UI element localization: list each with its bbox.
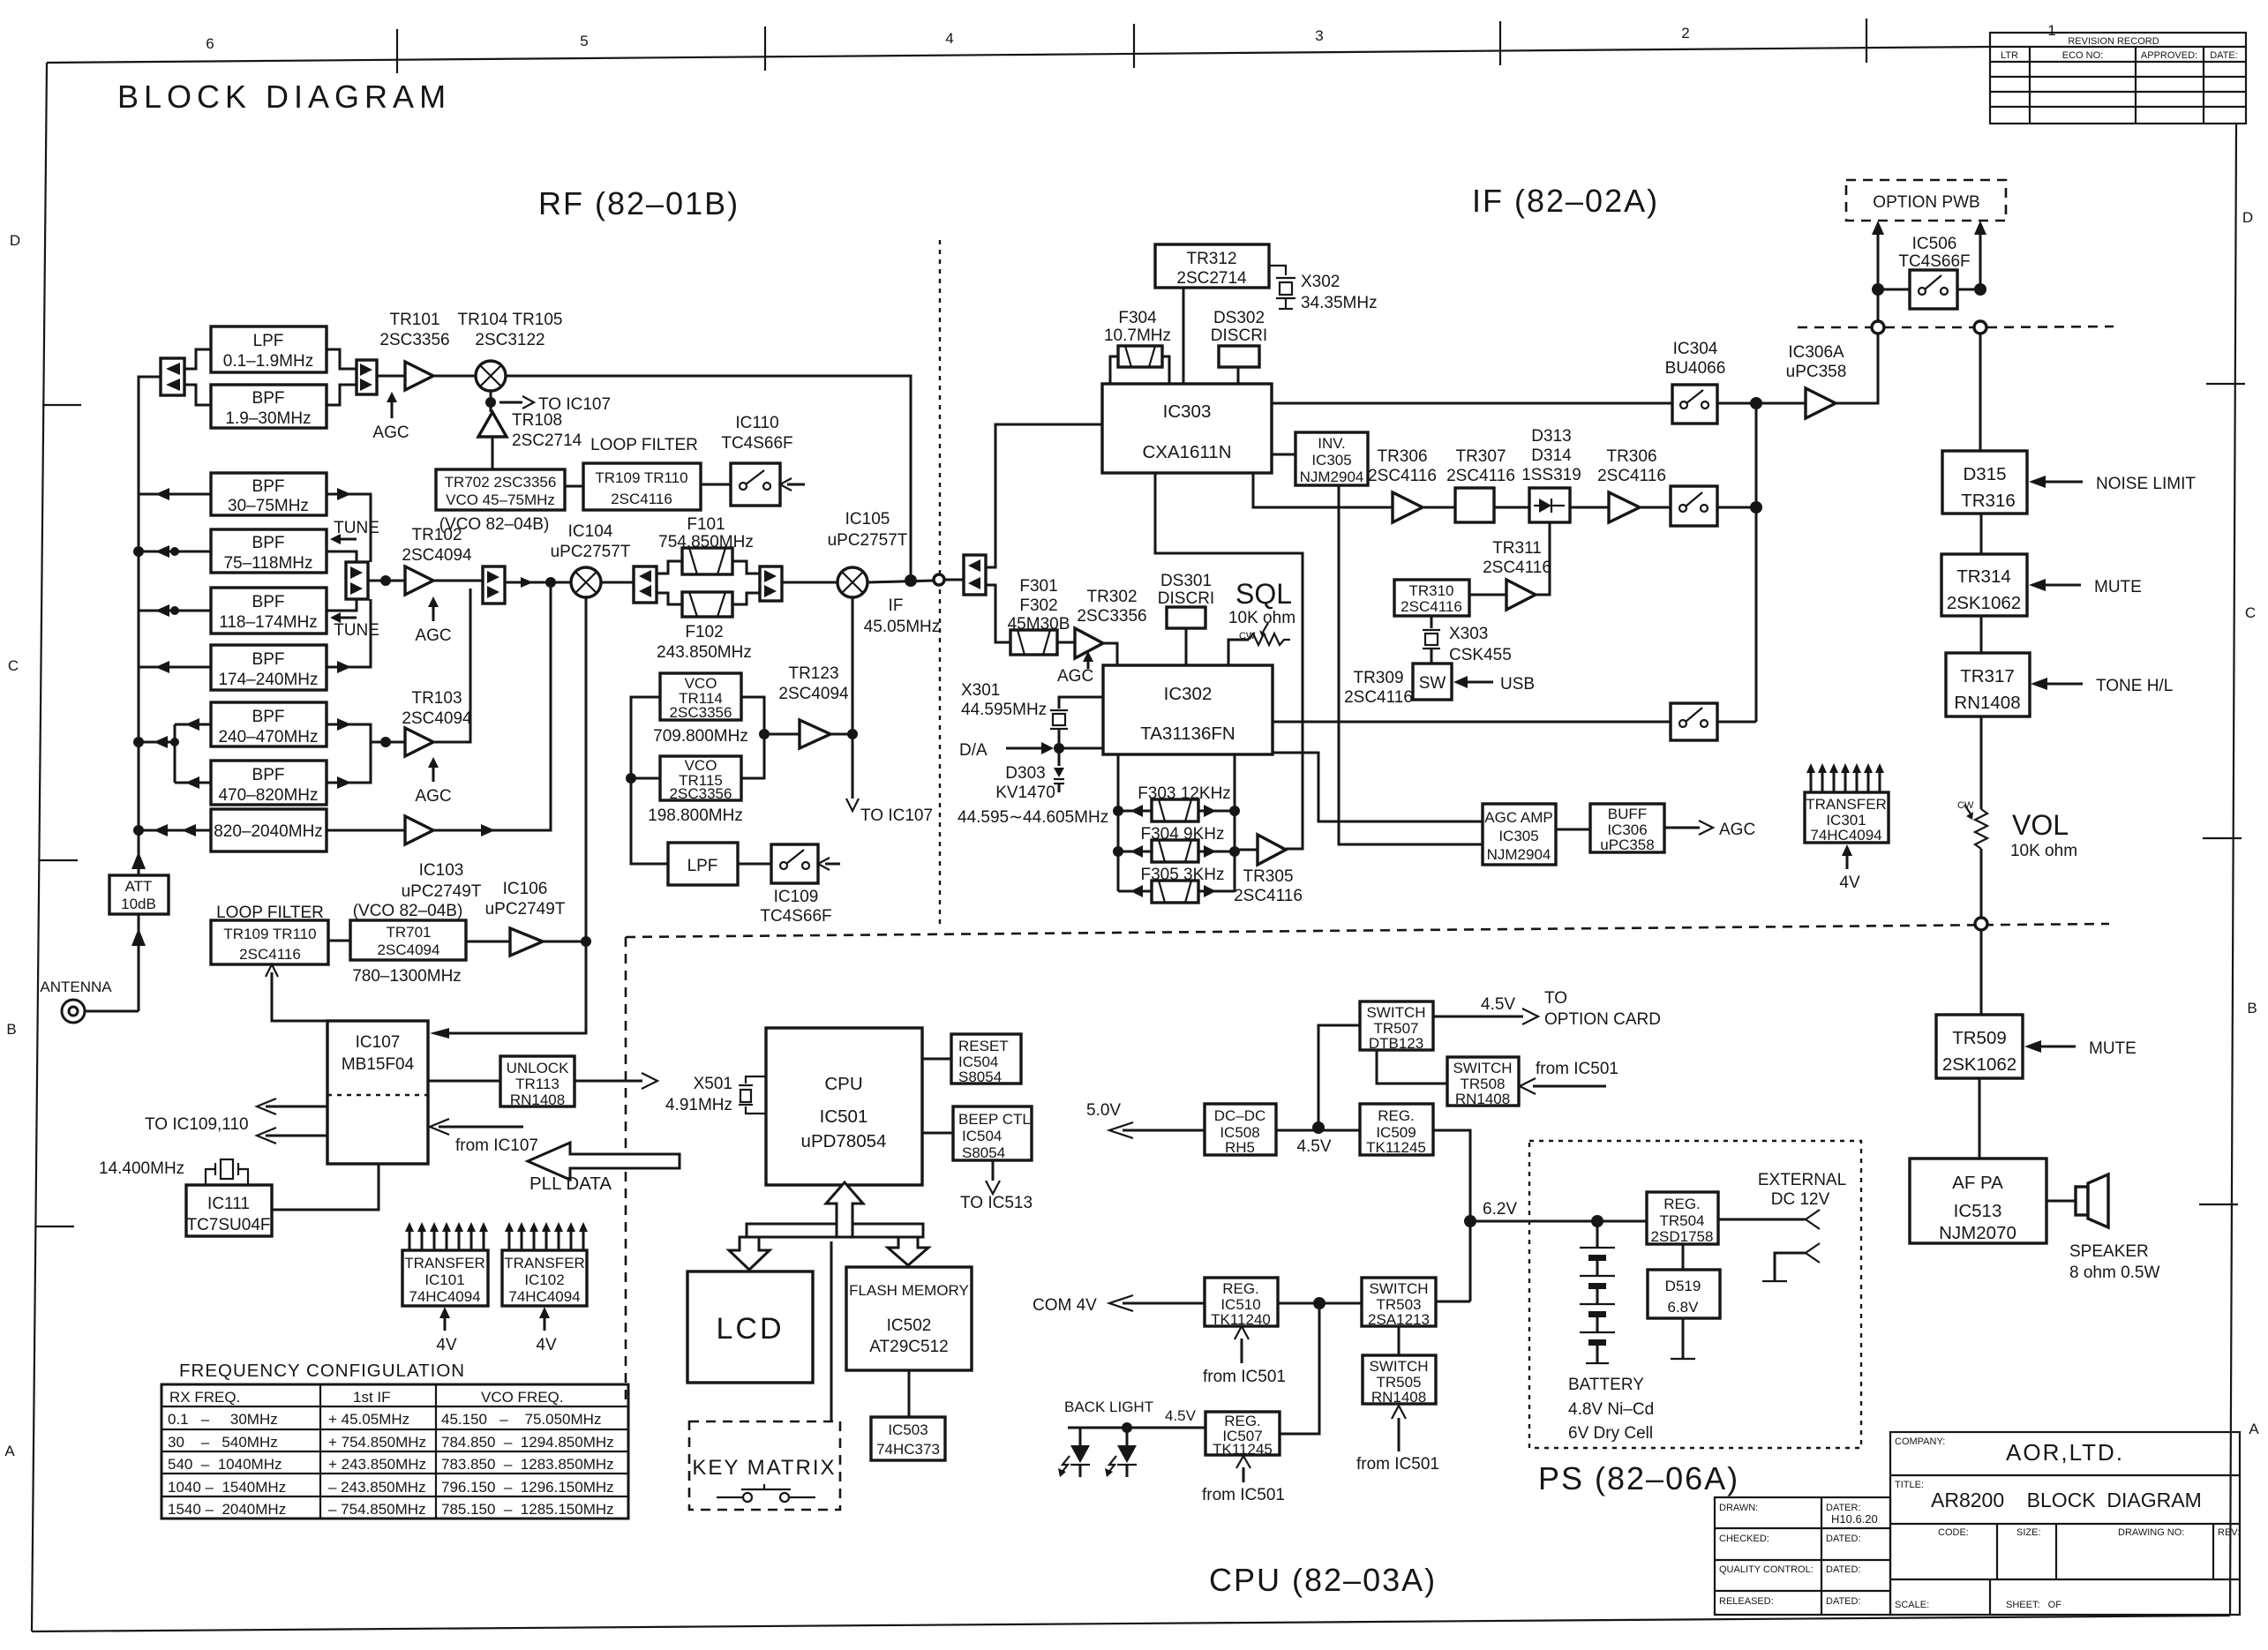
svg-text:CPU (82–03A): CPU (82–03A)	[1209, 1562, 1437, 1598]
svg-text:74HC4094: 74HC4094	[508, 1288, 580, 1305]
svg-text:2SK1062: 2SK1062	[1947, 593, 2021, 613]
svg-text:CXA1611N: CXA1611N	[1142, 442, 1231, 462]
IC306A amp	[1786, 334, 1878, 418]
svg-text:uPC358: uPC358	[1786, 363, 1847, 381]
LED 1	[1058, 1445, 1090, 1477]
svg-text:784.850 – 1294.850MHz: 784.850 – 1294.850MHz	[441, 1434, 614, 1451]
svg-text:2SC4116: 2SC4116	[1368, 467, 1437, 485]
BPF 820-2040MHz	[211, 809, 327, 851]
from IC501 arrow into TR508	[1520, 1060, 1618, 1094]
svg-text:DATED:: DATED:	[1826, 1596, 1861, 1607]
svg-text:C: C	[8, 657, 19, 674]
TRANSFER IC102	[502, 1250, 587, 1306]
svg-text:44.595MHz: 44.595MHz	[961, 701, 1047, 719]
svg-text:PLL DATA: PLL DATA	[529, 1174, 612, 1194]
wire IC303 bottom to TR306 amp	[1253, 473, 1393, 507]
svg-text:COMPANY:: COMPANY:	[1895, 1436, 1945, 1447]
TRANSFER IC301 box	[1805, 792, 1889, 844]
SECTION: if	[944, 244, 1878, 905]
svg-text:uPC2749T: uPC2749T	[402, 882, 482, 901]
wire FLASH to IC503	[908, 1370, 911, 1417]
svg-text:EXTERNAL: EXTERNAL	[1758, 1171, 1846, 1189]
svg-text:30–75MHz: 30–75MHz	[228, 497, 309, 515]
svg-text:SW: SW	[1419, 674, 1446, 693]
svg-text:MB15F04: MB15F04	[342, 1055, 415, 1074]
F303 12KHz	[1118, 784, 1235, 821]
svg-text:4V: 4V	[1839, 874, 1860, 892]
BUFF IC306 uPC358	[1590, 804, 1664, 853]
svg-text:RELEASED:: RELEASED:	[1719, 1596, 1774, 1607]
svg-text:TR702 2SC3356: TR702 2SC3356	[445, 474, 557, 491]
svg-text:IC504: IC504	[962, 1128, 1002, 1144]
svg-text:IC502: IC502	[887, 1316, 932, 1335]
svg-text:uPC2757T: uPC2757T	[828, 531, 908, 550]
svg-text:2SC3356: 2SC3356	[1077, 607, 1146, 626]
TUNE label 1	[330, 519, 379, 544]
svg-text:B: B	[2247, 1000, 2257, 1016]
svg-text:ECO NO:: ECO NO:	[2062, 50, 2103, 61]
TR307 box	[1446, 447, 1515, 522]
svg-text:1540 – 2040MHz: 1540 – 2040MHz	[168, 1501, 286, 1518]
IC503 74HC373 box	[871, 1417, 945, 1460]
wire IC510 to TR503	[1278, 1302, 1362, 1305]
battery dashed box	[1529, 1141, 1861, 1448]
svg-text:SHEET: OF: SHEET: OF	[2006, 1600, 2061, 1610]
D315 TR316 box	[1942, 451, 2027, 514]
svg-text:DATED:: DATED:	[1826, 1534, 1861, 1544]
right ticks	[2206, 383, 2245, 385]
IC302 bottom filter bank buses	[1117, 754, 1120, 891]
svg-text:TR701: TR701	[386, 924, 431, 941]
SWITCH TR503 2SA1213 box	[1362, 1278, 1436, 1328]
RESET IC504 S8054 box	[951, 1034, 1021, 1085]
svg-text:TR314: TR314	[1956, 566, 2011, 587]
section divider dashed CPU top	[626, 924, 2109, 937]
svg-text:TR109 TR110: TR109 TR110	[595, 469, 687, 486]
diode 820 left	[154, 824, 168, 836]
svg-text:IC109: IC109	[774, 888, 819, 906]
svg-text:2SC3122: 2SC3122	[475, 331, 544, 349]
from IC501 into TR505	[1356, 1406, 1439, 1474]
amp TR101	[379, 311, 449, 390]
svg-text:D: D	[10, 232, 20, 249]
svg-text:AGC: AGC	[1719, 821, 1755, 839]
crystal X303	[1423, 616, 1512, 664]
svg-text:FLASH MEMORY: FLASH MEMORY	[849, 1282, 969, 1299]
wire IC303 to INV	[1272, 454, 1295, 456]
svg-text:CPU: CPU	[824, 1074, 862, 1094]
svg-text:D/A: D/A	[959, 741, 988, 760]
svg-text:S8054: S8054	[958, 1069, 1002, 1085]
diodes into mid BPF group	[155, 488, 169, 500]
svg-text:RH5: RH5	[1225, 1139, 1255, 1156]
svg-text:783.850 – 1283.850MHz: 783.850 – 1283.850MHz	[441, 1456, 614, 1473]
CPU IC501 uPD78054 box	[766, 1028, 922, 1185]
amp TR302	[1057, 588, 1147, 658]
svg-text:10K ohm: 10K ohm	[1228, 609, 1295, 627]
IC303 CXA1611N	[1102, 384, 1272, 473]
SWITCH TR505 RN1408 box	[1363, 1355, 1436, 1406]
border frame	[47, 47, 1990, 63]
svg-text:ANTENNA: ANTENNA	[40, 979, 112, 995]
svg-text:BPF: BPF	[252, 534, 285, 552]
svg-text:TR509: TR509	[1952, 1028, 2007, 1048]
wire mixer feedback to IF line	[506, 376, 911, 578]
svg-text:IC111: IC111	[207, 1195, 250, 1213]
wire to TR307	[1423, 506, 1455, 509]
crystal X501	[665, 1075, 766, 1114]
svg-text:74HC373: 74HC373	[876, 1441, 940, 1458]
svg-text:10.7MHz: 10.7MHz	[1104, 326, 1171, 345]
svg-text:from IC501: from IC501	[1203, 1368, 1286, 1386]
svg-text:D303: D303	[1005, 764, 1045, 783]
svg-text:F101: F101	[687, 515, 725, 534]
MUTE arrow	[2029, 578, 2142, 596]
svg-text:240–470MHz: 240–470MHz	[218, 728, 318, 746]
wire to mixer IC105	[782, 581, 837, 584]
svg-text:TK11240: TK11240	[1211, 1311, 1271, 1328]
loop IC303 bottom to TR305	[1155, 473, 1303, 849]
mixer IC105 down line	[852, 597, 854, 734]
svg-text:TR305: TR305	[1243, 867, 1293, 886]
svg-text:TK11245: TK11245	[1366, 1139, 1426, 1156]
svg-text:10dB: 10dB	[121, 896, 156, 912]
switch output bus	[1717, 402, 1806, 405]
AGC arrow TR101	[372, 392, 409, 442]
speaker	[2046, 1174, 2159, 1282]
svg-text:540 – 1040MHz: 540 – 1040MHz	[168, 1456, 282, 1473]
svg-text:2SC2714: 2SC2714	[1176, 269, 1247, 288]
svg-text:uPD78054: uPD78054	[801, 1131, 887, 1151]
AGC label TR302	[1057, 651, 1093, 686]
from IC107 arrow	[430, 1119, 538, 1155]
svg-text:DRAWN:: DRAWN:	[1719, 1503, 1758, 1513]
svg-text:BEEP CTL: BEEP CTL	[958, 1111, 1031, 1128]
section divider dashed RF/IF	[939, 240, 941, 925]
D303 KV1470 varactor	[995, 764, 1064, 802]
svg-text:6.2V: 6.2V	[1483, 1200, 1517, 1219]
svg-text:AF PA: AF PA	[1952, 1173, 2003, 1193]
svg-text:2SC2714: 2SC2714	[512, 431, 582, 450]
svg-text:709.800MHz: 709.800MHz	[653, 727, 748, 746]
output selector diode box (top)	[357, 360, 377, 394]
svg-text:796.150 – 1296.150MHz: 796.150 – 1296.150MHz	[441, 1479, 614, 1496]
TONE H/L arrow	[2031, 677, 2173, 695]
svg-text:TR103: TR103	[411, 689, 462, 708]
svg-text:4.5V: 4.5V	[1296, 1137, 1331, 1156]
svg-text:TO IC513: TO IC513	[960, 1194, 1033, 1212]
svg-text:TR311: TR311	[1492, 539, 1542, 558]
svg-text:X302: X302	[1301, 273, 1340, 291]
svg-text:2: 2	[1681, 25, 1689, 41]
BPF 118-174MHz	[211, 588, 327, 634]
wire loop filter to IC110	[701, 484, 731, 486]
from IC501 into IC507	[1202, 1456, 1285, 1504]
mixer TR104 TR105	[458, 311, 563, 391]
LCD box	[687, 1271, 813, 1383]
svg-text:REV:: REV:	[2218, 1527, 2240, 1538]
svg-text:uPC358: uPC358	[1600, 836, 1654, 853]
wire CPU to RESET	[922, 1058, 951, 1061]
svg-text:174–240MHz: 174–240MHz	[218, 671, 318, 689]
svg-text:BUFF: BUFF	[1608, 806, 1647, 822]
wire amp to mixer	[433, 375, 476, 378]
svg-text:VCO 45–75MHz: VCO 45–75MHz	[446, 491, 555, 508]
svg-text:IC303: IC303	[1163, 401, 1212, 422]
svg-text:QUALITY CONTROL:: QUALITY CONTROL:	[1719, 1564, 1814, 1575]
F101/F102 selector diode box left	[634, 566, 657, 603]
svg-text:IC305: IC305	[1498, 828, 1538, 844]
SECTION: ps	[1033, 989, 1861, 1504]
X301 crystal	[961, 681, 1103, 766]
svg-text:DS302: DS302	[1213, 309, 1265, 327]
option board dashed boundary	[1798, 326, 1871, 329]
svg-text:14.400MHz: 14.400MHz	[99, 1159, 184, 1178]
svg-text:TO IC109,110: TO IC109,110	[145, 1115, 249, 1134]
svg-text:AT29C512: AT29C512	[869, 1338, 948, 1356]
TR509 2SK1062 box	[1936, 1015, 2023, 1078]
svg-text:RN1408: RN1408	[1455, 1091, 1510, 1107]
svg-text:TRANSFER: TRANSFER	[404, 1255, 485, 1271]
diode above ATT	[131, 851, 146, 869]
input selector diode box (top)	[161, 358, 184, 395]
svg-text:TR302: TR302	[1086, 588, 1137, 606]
antenna	[40, 979, 112, 1023]
svg-text:2SC4094: 2SC4094	[378, 941, 440, 958]
svg-text:KV1470: KV1470	[995, 784, 1055, 802]
svg-text:TONE H/L: TONE H/L	[2096, 677, 2173, 695]
svg-text:LOOP FILTER: LOOP FILTER	[590, 436, 698, 454]
small approval table	[1715, 1497, 1890, 1615]
battery cells	[1580, 1221, 1615, 1363]
wire top diode to IC303	[986, 424, 1102, 567]
svg-text:44.595∼44.605MHz: 44.595∼44.605MHz	[958, 808, 1108, 827]
svg-text:IF: IF	[889, 596, 904, 615]
svg-text:IF (82–02A): IF (82–02A)	[1472, 183, 1659, 219]
svg-text:NOISE LIMIT: NOISE LIMIT	[2096, 475, 2196, 493]
right diodes lower group	[337, 718, 351, 731]
arrow up into loop filter	[266, 964, 327, 1021]
svg-text:+ 45.05MHz: + 45.05MHz	[328, 1411, 409, 1428]
svg-text:A: A	[4, 1443, 15, 1459]
svg-text:BACK LIGHT: BACK LIGHT	[1064, 1399, 1153, 1415]
VCO TR702 box	[436, 469, 565, 534]
VOL potentiometer	[1957, 800, 2077, 918]
wire D315 to TR314	[1980, 514, 1983, 554]
svg-text:DISCRI: DISCRI	[1211, 326, 1267, 345]
wire REG IC509 to 6.2V rail	[1433, 1130, 1470, 1301]
5.0V arrow	[1086, 1101, 1205, 1138]
OPTION PWB dashed box	[1846, 180, 2006, 221]
svg-text:470–820MHz: 470–820MHz	[218, 786, 318, 805]
svg-text:NJM2904: NJM2904	[1300, 469, 1364, 485]
svg-text:4.5V: 4.5V	[1481, 995, 1515, 1014]
svg-text:from IC501: from IC501	[1356, 1455, 1439, 1474]
wire RF input bus	[138, 914, 140, 1011]
right-side diodes of mid group	[337, 488, 351, 500]
NOISE LIMIT arrow	[2029, 475, 2196, 493]
svg-text:1st IF: 1st IF	[353, 1389, 391, 1406]
svg-text:RN1408: RN1408	[1371, 1389, 1426, 1406]
svg-text:TR123: TR123	[788, 664, 838, 683]
svg-text:S8054: S8054	[962, 1144, 1005, 1161]
svg-text:+ 754.850MHz: + 754.850MHz	[328, 1434, 426, 1451]
svg-text:4.91MHz: 4.91MHz	[665, 1096, 732, 1114]
wires LPF/BPF pair	[184, 349, 211, 369]
wire AGC AMP to BUFF	[1556, 829, 1590, 831]
svg-text:TO: TO	[1544, 989, 1567, 1008]
svg-text:TC4S66F: TC4S66F	[760, 907, 831, 926]
svg-text:TC4S66F: TC4S66F	[721, 434, 792, 453]
svg-text:LCD: LCD	[716, 1312, 784, 1346]
svg-text:D313: D313	[1531, 427, 1571, 446]
svg-text:0.1–1.9MHz: 0.1–1.9MHz	[223, 352, 313, 371]
svg-text:TITLE:: TITLE:	[1895, 1480, 1924, 1490]
svg-text:2SC4116: 2SC4116	[1483, 559, 1551, 577]
svg-text:IC501: IC501	[820, 1106, 868, 1127]
wire TR317 down to VOL	[1980, 716, 1983, 809]
DS301 DISCRI	[1158, 572, 1214, 665]
svg-text:from IC107: from IC107	[455, 1136, 538, 1155]
IF output line	[867, 581, 933, 582]
TO IC513 arrow	[960, 1160, 1033, 1212]
SQL pot	[1228, 578, 1295, 665]
svg-text:NJM2070: NJM2070	[1939, 1223, 2016, 1243]
svg-text:IC506: IC506	[1912, 235, 1957, 253]
svg-text:30 – 540MHz: 30 – 540MHz	[168, 1434, 278, 1451]
wire antenna to bus	[85, 1010, 139, 1013]
svg-text:TR307: TR307	[1455, 447, 1506, 466]
svg-text:H10.6.20: H10.6.20	[1831, 1512, 1878, 1526]
connector circle on boundary	[1975, 918, 1987, 930]
svg-text:SWITCH: SWITCH	[1453, 1060, 1512, 1076]
svg-text:2SC3356: 2SC3356	[379, 331, 449, 349]
wire IC111 to IC107	[272, 1164, 379, 1210]
wire amp to IC107	[543, 941, 586, 943]
svg-text:D314: D314	[1531, 446, 1572, 465]
svg-text:TR309: TR309	[1353, 669, 1403, 687]
amp IC106	[510, 928, 543, 956]
svg-text:10K ohm: 10K ohm	[2010, 842, 2077, 860]
svg-text:APPROVED:: APPROVED:	[2141, 50, 2197, 61]
svg-text:IC110: IC110	[735, 414, 778, 432]
svg-text:TR306: TR306	[1377, 447, 1427, 466]
svg-text:4: 4	[945, 30, 953, 47]
svg-text:BLOCK DIAGRAM: BLOCK DIAGRAM	[117, 79, 451, 115]
wire to switch2	[1640, 506, 1671, 509]
wire to TR509	[1980, 930, 1983, 1015]
BPF 240-470MHz	[211, 702, 327, 746]
DS302 DISCRI	[1211, 309, 1267, 384]
IC302 right stub to AGC AMP	[1273, 753, 1483, 821]
svg-text:2SC4094: 2SC4094	[402, 709, 472, 728]
wire bottom diode to F301	[986, 585, 1010, 642]
TO IC107 down arrow	[846, 734, 933, 825]
svg-text:CODE:: CODE:	[1938, 1527, 1969, 1538]
svg-text:– 243.850MHz: – 243.850MHz	[328, 1479, 426, 1496]
wire IC107 to UNLOCK	[428, 1080, 500, 1083]
wire to TR306b	[1570, 506, 1609, 509]
svg-text:IC106: IC106	[503, 880, 548, 898]
wire DC-DC to REG IC509	[1276, 1129, 1360, 1132]
svg-text:TR310: TR310	[1408, 582, 1453, 599]
svg-text:0.1 – 30MHz: 0.1 – 30MHz	[168, 1411, 278, 1428]
IC302 TA31136FN	[1103, 665, 1273, 754]
svg-text:1040 – 1540MHz: 1040 – 1540MHz	[168, 1479, 286, 1496]
svg-text:6: 6	[206, 35, 214, 52]
COM 4V arrow	[1033, 1295, 1205, 1315]
svg-text:785.150 – 1285.150MHz: 785.150 – 1285.150MHz	[441, 1501, 614, 1518]
LPF box (VCO)	[668, 843, 738, 885]
svg-text:TR101: TR101	[389, 311, 439, 329]
svg-text:TR306: TR306	[1606, 447, 1656, 466]
svg-text:118–174MHz: 118–174MHz	[219, 613, 318, 632]
svg-text:F304: F304	[1118, 309, 1157, 327]
VCO TR115 box	[648, 756, 743, 825]
wire TR503 to TR505	[1398, 1326, 1401, 1355]
svg-text:RN1408: RN1408	[510, 1091, 565, 1108]
TRANSFER IC101 arrows	[409, 1228, 484, 1250]
diode pair box IF input	[944, 555, 986, 595]
svg-text:VCO FREQ.: VCO FREQ.	[481, 1389, 564, 1406]
BATTERY label	[1568, 1376, 1654, 1443]
external connector 2 + ground	[1762, 1243, 1820, 1281]
svg-text:SCALE:: SCALE:	[1895, 1600, 1929, 1610]
amp TR108 (points up)	[478, 411, 582, 450]
svg-text:4.5V: 4.5V	[1165, 1407, 1197, 1424]
PLL DATA hollow arrow	[528, 1143, 680, 1194]
svg-text:3: 3	[1315, 27, 1323, 44]
TR312 2SC2714 box	[1155, 244, 1269, 288]
amp TR123	[778, 664, 849, 748]
svg-text:2SC4116: 2SC4116	[1597, 467, 1666, 485]
amp TR102	[402, 526, 472, 595]
wire LPF to IC109	[738, 863, 771, 866]
svg-text:DC 12V: DC 12V	[1771, 1190, 1830, 1209]
svg-text:IC503: IC503	[888, 1421, 927, 1438]
TR317 RN1408 box	[1946, 653, 2030, 716]
svg-text:TR312: TR312	[1186, 250, 1236, 268]
SWITCH TR508 RN1408 box	[1447, 1057, 1519, 1107]
wire to D313	[1494, 506, 1529, 509]
wire TR701 to amp	[466, 941, 510, 943]
svg-text:2SC3356: 2SC3356	[670, 785, 732, 802]
svg-text:NJM2904: NJM2904	[1487, 846, 1551, 863]
svg-text:5.0V: 5.0V	[1086, 1101, 1121, 1120]
svg-text:DISCRI: DISCRI	[1158, 589, 1214, 608]
TRANSFER IC101	[402, 1250, 488, 1306]
svg-text:45.05MHz: 45.05MHz	[864, 618, 941, 636]
svg-text:IC103: IC103	[419, 861, 464, 880]
svg-text:SQL: SQL	[1235, 578, 1292, 610]
svg-text:TR113: TR113	[515, 1076, 559, 1092]
amp TR305	[1234, 835, 1303, 905]
SW box	[1413, 664, 1535, 700]
svg-text:VOL: VOL	[2012, 809, 2069, 841]
svg-text:RX FREQ.: RX FREQ.	[169, 1389, 240, 1406]
UNLOCK TR113 RN1408	[500, 1056, 575, 1108]
svg-text:TRANSFER: TRANSFER	[1806, 796, 1887, 813]
svg-text:75–118MHz: 75–118MHz	[223, 554, 312, 573]
svg-text:74HC4094: 74HC4094	[409, 1288, 480, 1305]
svg-text:AGC: AGC	[372, 424, 409, 442]
svg-text:TK11245: TK11245	[1213, 1441, 1273, 1458]
switch 3	[1671, 703, 1717, 740]
revision record table	[1990, 33, 2246, 124]
svg-text:X501: X501	[694, 1075, 732, 1093]
svg-text:45.150 – 75.050MHz: 45.150 – 75.050MHz	[441, 1411, 601, 1428]
svg-text:AGC AMP: AGC AMP	[1484, 809, 1552, 826]
